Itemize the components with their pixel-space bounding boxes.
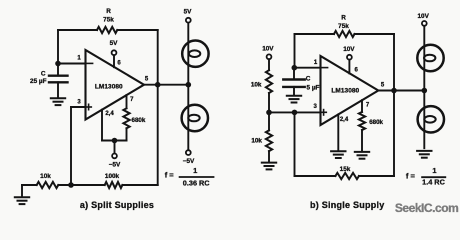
svg-text:2,4: 2,4 bbox=[340, 117, 349, 123]
svg-text:10V: 10V bbox=[418, 13, 430, 20]
svg-text:5 µF: 5 µF bbox=[307, 85, 320, 92]
svg-text:10V: 10V bbox=[343, 46, 355, 53]
svg-text:SeekIC.com: SeekIC.com bbox=[395, 201, 459, 215]
svg-text:75k: 75k bbox=[103, 17, 114, 24]
svg-text:10k: 10k bbox=[251, 137, 262, 144]
svg-text:−5V: −5V bbox=[183, 158, 195, 165]
svg-text:25 µF: 25 µF bbox=[30, 78, 47, 85]
svg-text:LM13080: LM13080 bbox=[331, 88, 359, 95]
svg-text:680k: 680k bbox=[132, 117, 146, 124]
svg-text:f =: f = bbox=[406, 171, 416, 180]
svg-text:100k: 100k bbox=[105, 173, 120, 180]
svg-text:0.36 RC: 0.36 RC bbox=[183, 178, 210, 187]
svg-text:1: 1 bbox=[432, 166, 436, 175]
svg-text:C: C bbox=[41, 71, 46, 78]
svg-text:−5V: −5V bbox=[109, 162, 121, 169]
svg-text:C: C bbox=[306, 76, 311, 83]
svg-text:10V: 10V bbox=[262, 46, 274, 53]
svg-text:LM13080: LM13080 bbox=[95, 84, 123, 91]
svg-text:75k: 75k bbox=[338, 23, 349, 30]
svg-text:f =: f = bbox=[165, 171, 175, 180]
svg-text:680k: 680k bbox=[369, 119, 383, 126]
svg-text:1.4 RC: 1.4 RC bbox=[422, 178, 445, 187]
svg-text:b) Single Supply: b) Single Supply bbox=[310, 200, 385, 210]
svg-text:10k: 10k bbox=[251, 81, 262, 88]
svg-text:15k: 15k bbox=[340, 166, 351, 173]
svg-text:a) Split Supplies: a) Split Supplies bbox=[80, 200, 154, 210]
svg-text:5V: 5V bbox=[184, 9, 193, 16]
svg-text:2,4: 2,4 bbox=[105, 111, 114, 117]
svg-text:5V: 5V bbox=[110, 40, 119, 47]
svg-text:R: R bbox=[106, 8, 111, 15]
svg-text:1: 1 bbox=[193, 166, 197, 175]
svg-text:R: R bbox=[341, 15, 346, 22]
svg-text:10k: 10k bbox=[40, 173, 51, 180]
